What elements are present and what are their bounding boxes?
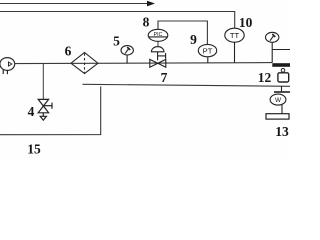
control valve CV7 [150,47,166,68]
sensor 12 (box with connector) [281,69,285,73]
pump P (blower at left edge) [0,58,15,75]
svg-text:8: 8 [143,15,150,30]
svg-text:5: 5 [113,33,120,48]
svg-text:10: 10 [239,15,253,30]
svg-text:6: 6 [65,44,72,59]
gauge PI (right) [266,32,291,63]
svg-text:4: 4 [28,104,35,119]
transmitter PT9 (bubble) [198,44,216,63]
valve V4 (vent valve) [38,99,52,120]
wire: return drop [0,86,101,134]
wire: signal PIC to PT [158,21,207,45]
svg-text:W: W [275,97,282,104]
gauge PI5 [121,46,133,64]
transmitter TT10 (bubble) [225,28,244,63]
wire: top arrow line [0,3,148,5]
svg-text:9: 9 [190,32,197,47]
controller PIC8 (bubble) [148,29,168,41]
svg-text:13: 13 [275,124,289,139]
filter F6 (diamond) [71,52,98,73]
svg-text:PIC: PIC [154,32,163,38]
svg-text:12: 12 [258,70,272,85]
svg-text:PT: PT [203,46,213,55]
svg-text:15: 15 [27,141,41,156]
wire: PIC to valve stem [157,41,159,47]
wire: tee down to valve 4 [42,63,44,99]
wet test meter W13 [266,86,290,119]
test section wall (thick bar) [272,63,290,67]
svg-text:7: 7 [161,70,168,85]
wire: signal line to TT [0,12,235,29]
svg-text:TT: TT [230,31,240,40]
wire: lower line [83,84,291,86]
wire: main process line [15,63,273,64]
